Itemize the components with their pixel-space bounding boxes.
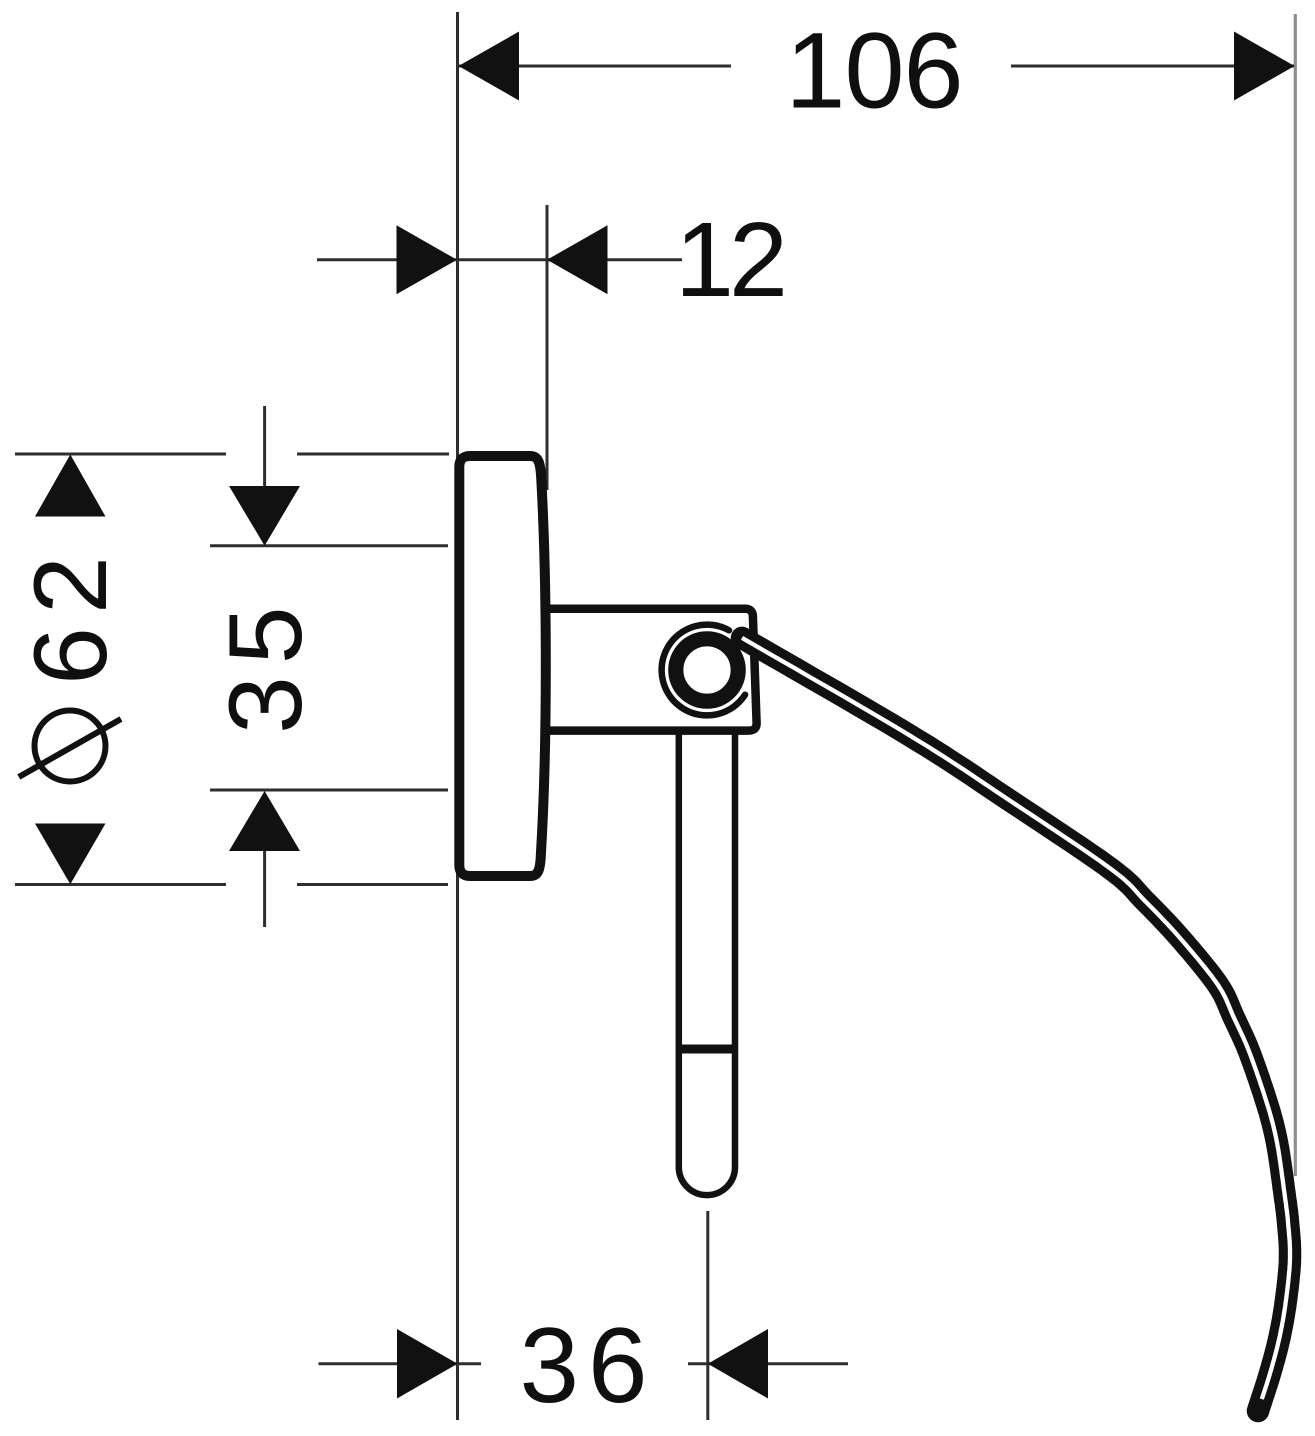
arrow 35 top [229, 486, 300, 546]
Ø62 top extension line segment a [15, 453, 226, 456]
Ø62 top extension line segment b [297, 453, 449, 456]
svg-text:35: 35 [208, 594, 324, 734]
dimension line 106 right segment [1011, 65, 1294, 68]
post joint crossbar [676, 1045, 738, 1054]
paper-guard wire (white core) [742, 638, 1290, 1399]
svg-text:106: 106 [785, 10, 962, 131]
35 bottom extension line [210, 789, 448, 792]
dimension line 12 [317, 258, 682, 261]
bracket arm [542, 609, 757, 731]
extension line 36 right x=707.8 [706, 1211, 709, 1420]
wire loop around pin [662, 625, 746, 716]
arrow Ø62 bottom [35, 824, 106, 885]
arrow 106 right [1234, 32, 1295, 101]
arrow 106 left [459, 32, 520, 101]
extension line right vertical (grey) x=1295.3 [1294, 14, 1297, 1176]
paper-guard wire (outer black) [742, 638, 1290, 1411]
arrow 12 left [397, 225, 458, 294]
dimension line 106 left segment [459, 65, 731, 68]
arrow 12 right [547, 225, 608, 294]
holder post [679, 731, 735, 1195]
Ø62 bottom extension line segment b [297, 883, 448, 886]
svg-text:2: 2 [729, 201, 788, 319]
roll pin (black donut) [676, 639, 738, 701]
extension line left vertical x=457.5 [456, 12, 459, 1420]
extension line for 12 at x=547 [546, 205, 549, 490]
diameter symbol of Ø62 [19, 711, 121, 782]
35 top arrow tail [263, 406, 266, 486]
dimension line 36 left segment [319, 1362, 482, 1365]
wall plate [459, 456, 546, 876]
arrow 36 left [397, 1329, 458, 1399]
35 top extension line [210, 544, 448, 547]
arrow 35 bottom [229, 791, 300, 851]
svg-text:1: 1 [675, 201, 734, 319]
dimension line 36 right segment [688, 1362, 848, 1365]
svg-text:62: 62 [13, 543, 129, 685]
35 bottom arrow tail [263, 851, 266, 927]
Ø62 bottom extension line segment a [15, 883, 226, 886]
arrow 36 right [708, 1329, 768, 1399]
arrow Ø62 top [35, 455, 106, 517]
svg-text:36: 36 [519, 1305, 656, 1425]
